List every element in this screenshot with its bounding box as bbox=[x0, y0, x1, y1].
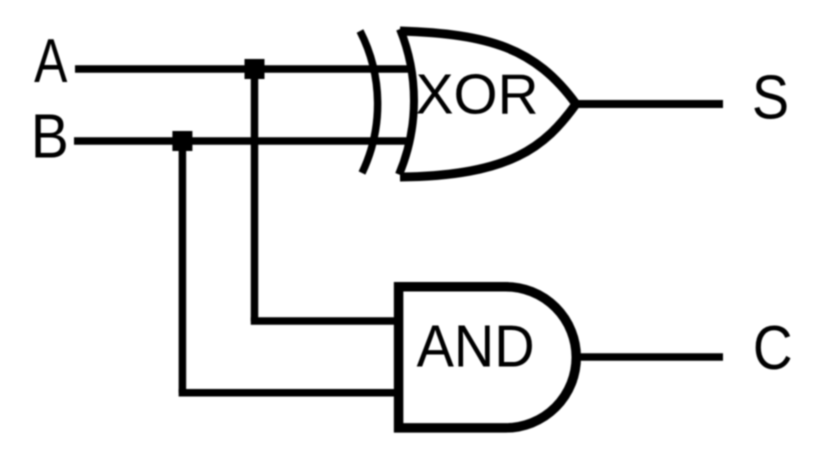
wire C output bbox=[578, 353, 723, 361]
svg-text:A: A bbox=[34, 26, 68, 95]
junction node on wire B bbox=[172, 131, 192, 151]
XOR extra input arc bbox=[360, 31, 378, 173]
wire A branch horizontal to AND bbox=[251, 317, 403, 325]
wire A branch vertical bbox=[251, 69, 259, 321]
svg-text:AND: AND bbox=[417, 314, 535, 380]
wire B input bbox=[74, 137, 411, 145]
gate XOR input edge arc bbox=[399, 29, 414, 175]
wire B branch vertical bbox=[179, 141, 187, 393]
svg-text:S: S bbox=[752, 64, 789, 132]
svg-text:XOR: XOR bbox=[416, 64, 539, 127]
svg-text:C: C bbox=[753, 314, 793, 383]
svg-text:B: B bbox=[31, 101, 69, 171]
wire S output bbox=[576, 100, 723, 108]
gate XOR outline bbox=[400, 31, 576, 177]
wire B branch horizontal to AND bbox=[179, 389, 403, 397]
wire A input bbox=[75, 65, 408, 73]
junction node on wire A bbox=[245, 59, 265, 79]
gate AND body bbox=[399, 287, 577, 428]
